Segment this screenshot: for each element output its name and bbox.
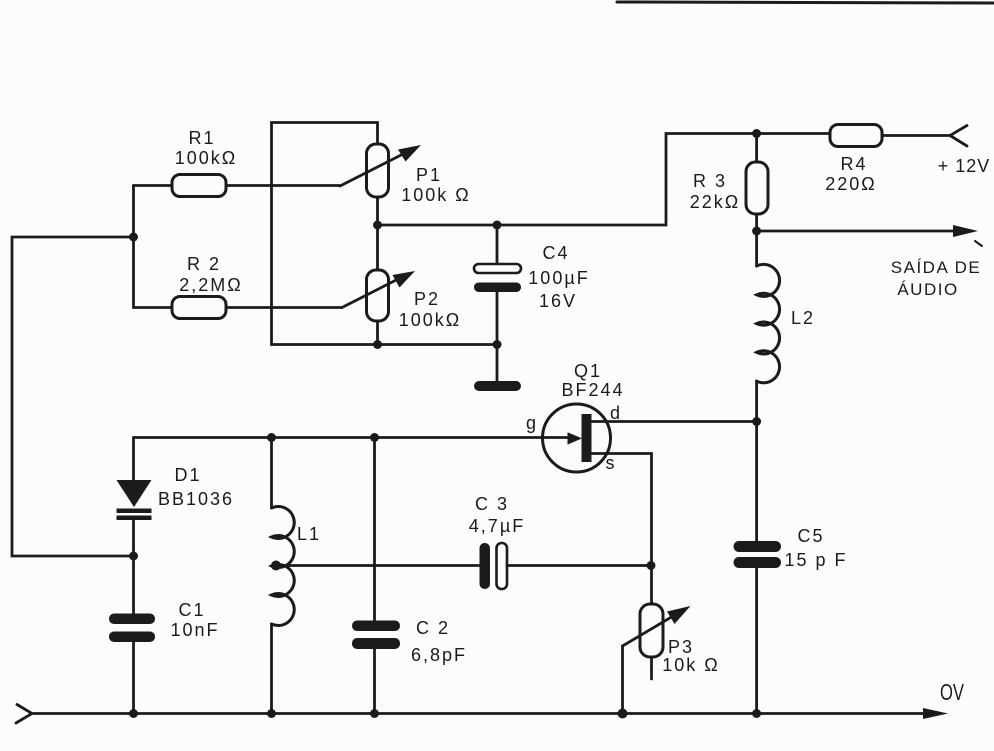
node C4 top xyxy=(493,221,502,230)
node supply/R3 top xyxy=(752,129,761,138)
svg-text:R4: R4 xyxy=(840,154,867,174)
wire source down xyxy=(650,454,653,605)
svg-text:100k Ω: 100k Ω xyxy=(401,185,471,205)
svg-text:P3: P3 xyxy=(668,637,694,657)
svg-text:C1: C1 xyxy=(178,600,205,620)
svg-text:R 2: R 2 xyxy=(187,254,221,274)
inductor L2 xyxy=(757,231,780,422)
svg-text:16V: 16V xyxy=(539,291,577,311)
svg-text:R 3: R 3 xyxy=(693,171,727,191)
svg-text:10nF: 10nF xyxy=(170,620,219,640)
potentiometer P1 xyxy=(340,123,421,226)
wire left vertical bus xyxy=(12,237,134,556)
svg-text:s: s xyxy=(606,453,617,473)
svg-text:6,8pF: 6,8pF xyxy=(411,645,467,665)
ground bar xyxy=(474,381,521,391)
svg-text:d: d xyxy=(610,403,622,423)
connector 0V left chevron xyxy=(16,705,32,724)
transistor Q1 xyxy=(543,404,757,472)
node rail P3 xyxy=(618,709,628,719)
diode D1 xyxy=(117,438,152,557)
svg-text:SAÍDA DE: SAÍDA DE xyxy=(891,258,981,277)
node L1 tap xyxy=(271,561,281,571)
svg-text:15 p F: 15 p F xyxy=(784,550,847,570)
svg-text:C5: C5 xyxy=(797,526,824,546)
node A (R1/R2 divider join) xyxy=(129,233,138,242)
node drain / C5 top xyxy=(752,417,761,426)
potentiometer P3 xyxy=(623,604,691,713)
svg-text:C4: C4 xyxy=(542,243,569,263)
capacitor C1 xyxy=(109,556,155,713)
wire R1-R2 vertical xyxy=(132,186,135,308)
svg-text:L1: L1 xyxy=(297,524,321,544)
svg-text:220Ω: 220Ω xyxy=(825,174,877,194)
resistor R2 xyxy=(134,297,343,319)
svg-text:10k Ω: 10k Ω xyxy=(662,655,719,675)
top border line fragment xyxy=(617,2,994,3)
wire lower gate rail xyxy=(134,436,568,439)
svg-text:ÁUDIO: ÁUDIO xyxy=(897,280,958,299)
svg-text:BB1036: BB1036 xyxy=(158,489,234,509)
node rail C5 xyxy=(752,709,761,718)
resistor R4 xyxy=(830,125,950,147)
node gate rail / C2 xyxy=(370,433,379,442)
svg-text:g: g xyxy=(526,413,538,433)
node P2 bottom xyxy=(373,340,382,349)
svg-text:2,2MΩ: 2,2MΩ xyxy=(179,275,242,295)
resistor R1 xyxy=(134,175,341,197)
wire wiper bus to supply xyxy=(378,134,831,226)
capacitor C3 xyxy=(480,543,652,589)
svg-text:C 2: C 2 xyxy=(416,618,450,638)
svg-text:OV: OV xyxy=(940,679,964,705)
svg-text:D1: D1 xyxy=(174,465,201,485)
capacitor C2 xyxy=(352,438,400,714)
node source / C3 xyxy=(647,561,656,570)
resistor R3 xyxy=(746,134,768,232)
inductor L1 xyxy=(272,438,295,714)
svg-text:4,7µF: 4,7µF xyxy=(469,516,525,536)
svg-text:22kΩ: 22kΩ xyxy=(690,192,740,212)
wire audio output arrow xyxy=(757,230,958,233)
stray mark xyxy=(975,241,982,246)
node gate rail / L1 xyxy=(267,433,276,442)
node rail L1 xyxy=(267,709,276,718)
svg-text:+ 12V: + 12V xyxy=(938,156,991,176)
svg-text:100µF: 100µF xyxy=(528,268,589,288)
svg-text:P2: P2 xyxy=(414,289,440,309)
wire 0V rail xyxy=(32,712,930,715)
svg-text:Q1: Q1 xyxy=(574,361,602,381)
capacitor C4 xyxy=(474,225,521,345)
svg-text:100kΩ: 100kΩ xyxy=(399,310,462,330)
svg-text:C 3: C 3 xyxy=(475,494,509,514)
capacitor C5 xyxy=(734,422,782,714)
wire box bottom to C4 xyxy=(378,343,498,346)
svg-text:BF244: BF244 xyxy=(561,380,624,400)
node rail C2 xyxy=(370,709,379,718)
node R3 bottom / audio out xyxy=(752,227,761,236)
connector +12V chevron xyxy=(950,126,967,147)
arrow 0V right xyxy=(923,708,948,719)
svg-text:P1: P1 xyxy=(416,165,442,185)
node C4 bottom xyxy=(493,340,502,349)
wire feedback box (P1/P2 frame) xyxy=(272,123,378,345)
wire C4 ground stub xyxy=(496,345,499,383)
svg-text:100kΩ: 100kΩ xyxy=(175,148,238,168)
node P1/P2 junction xyxy=(373,221,382,230)
node D1/C1 junction xyxy=(129,552,138,561)
svg-text:L2: L2 xyxy=(791,308,815,328)
wire tap to C3 xyxy=(276,564,480,567)
svg-text:R1: R1 xyxy=(188,128,215,148)
node rail C1 xyxy=(129,709,138,718)
potentiometer P2 xyxy=(342,225,415,345)
